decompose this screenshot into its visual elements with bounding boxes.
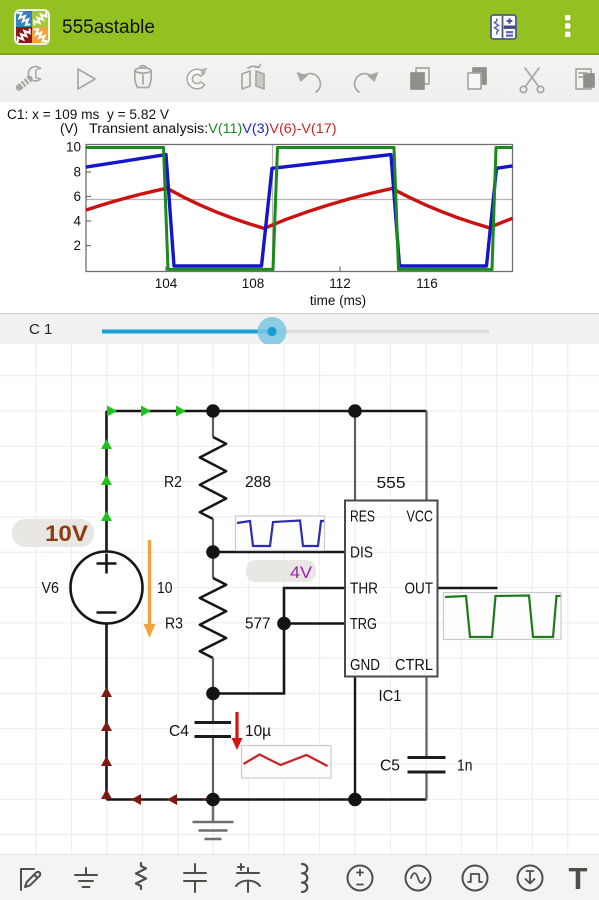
wire top rail from V6 to VCC corner <box>107 410 427 413</box>
dc source tool <box>348 866 373 891</box>
svg-text:4V: 4V <box>290 563 313 582</box>
green current arrows on left rail <box>101 439 112 521</box>
node bottom C4 <box>206 793 220 807</box>
svg-text:10: 10 <box>157 580 173 597</box>
node top RES <box>348 404 362 418</box>
svg-text:555: 555 <box>377 475 406 492</box>
copy light <box>468 68 486 89</box>
resistor tool <box>136 863 146 889</box>
chart panel <box>0 102 599 313</box>
node TRG junction <box>277 617 291 631</box>
copy dark <box>411 68 429 89</box>
C4 waveform inset (red) <box>242 746 332 779</box>
app icon <box>14 9 50 45</box>
overflow menu <box>562 13 574 43</box>
wire TRG branch <box>284 622 345 625</box>
probe/down tool <box>518 866 543 891</box>
layout/scope action icon <box>490 14 517 40</box>
wire left rail (V6 top) <box>105 411 108 552</box>
svg-text:TRG: TRG <box>350 616 377 633</box>
capacitor tool <box>184 864 206 892</box>
DIS waveform inset (blue) <box>236 516 325 551</box>
red current arrow at C4 <box>232 712 243 750</box>
paste <box>576 69 594 89</box>
svg-text:C4: C4 <box>169 723 189 740</box>
OUT waveform inset (green) <box>444 593 562 640</box>
wire DIS to 555 <box>213 551 345 554</box>
bottom component toolbar <box>0 854 599 900</box>
wire bottom rail <box>107 798 427 801</box>
wire GND pin to bottom rail <box>354 677 356 800</box>
node top R2 <box>206 404 220 418</box>
svg-text:R2: R2 <box>164 474 182 491</box>
IC1 555 timer box <box>345 411 438 677</box>
svg-text:577: 577 <box>245 616 271 633</box>
svg-text:IC1: IC1 <box>379 688 402 705</box>
traces <box>86 188 513 228</box>
svg-text:GND: GND <box>350 657 380 674</box>
redo <box>355 72 379 92</box>
svg-text:10V: 10V <box>45 521 88 546</box>
ac source tool <box>406 866 431 891</box>
dark red current arrows on left rail below source <box>101 687 112 799</box>
dark red current arrows on bottom rail <box>131 794 213 805</box>
capacitor C5 <box>408 677 446 800</box>
current arrow (orange) of V6 <box>144 540 156 638</box>
flip <box>242 65 264 90</box>
pulse source tool <box>463 866 488 891</box>
play <box>78 69 95 89</box>
voltage source V6 <box>71 552 143 624</box>
svg-text:VCC: VCC <box>407 509 434 526</box>
axes box <box>86 145 513 272</box>
value bubble 10V <box>12 519 94 547</box>
svg-text:10µ: 10µ <box>245 723 271 740</box>
svg-text:R3: R3 <box>165 616 183 633</box>
svg-text:OUT: OUT <box>405 581 434 598</box>
rotate <box>187 68 208 89</box>
ground tool <box>75 868 97 887</box>
node bottom GND <box>348 793 362 807</box>
resistor R2 <box>200 411 226 552</box>
wire left rail (V6 bottom) <box>105 624 108 800</box>
polarized capacitor tool <box>236 864 260 892</box>
slider row <box>0 313 599 345</box>
svg-text:V6: V6 <box>42 580 60 597</box>
ground symbol <box>193 800 234 840</box>
svg-text:CTRL: CTRL <box>395 657 433 674</box>
svg-text:T: T <box>569 861 588 896</box>
action bar <box>0 0 599 55</box>
green current arrows on top rail <box>107 406 186 417</box>
inductor tool <box>302 864 307 892</box>
svg-text:288: 288 <box>245 474 271 491</box>
capacitor C4 <box>195 694 232 800</box>
wire THR branch <box>213 588 345 694</box>
svg-text:THR: THR <box>350 581 378 598</box>
node THR/C4 junction <box>206 687 220 701</box>
value bubble 4V (THR) <box>246 560 316 582</box>
wire OUT probe <box>438 587 498 590</box>
grey tool bar <box>0 55 599 103</box>
resistor R3 <box>200 552 226 694</box>
node DIS junction <box>206 545 220 559</box>
undo <box>297 72 321 92</box>
svg-text:C5: C5 <box>380 758 400 775</box>
cut <box>520 68 543 93</box>
wrench <box>19 67 41 88</box>
cursor lines <box>272 145 274 272</box>
svg-text:DIS: DIS <box>350 545 373 562</box>
edit/draw tool <box>21 869 40 890</box>
svg-text:1n: 1n <box>457 758 473 775</box>
svg-text:RES: RES <box>350 509 375 526</box>
trash <box>135 66 151 88</box>
